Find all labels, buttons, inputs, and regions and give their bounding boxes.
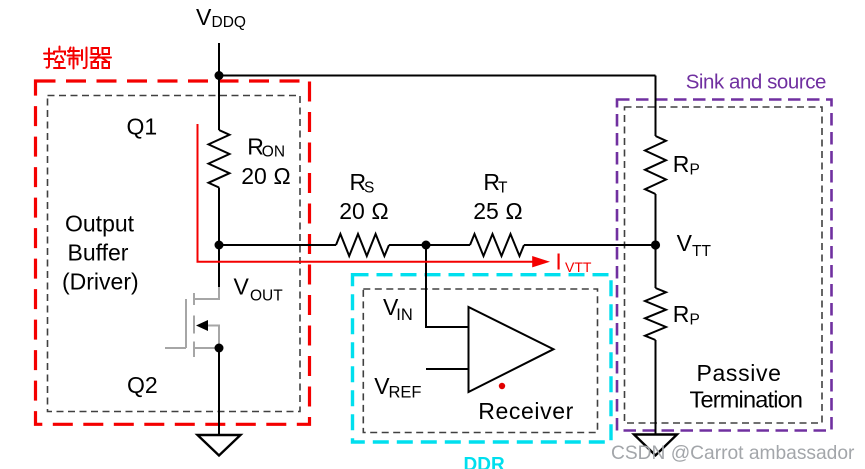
svg-text:REF: REF <box>389 384 422 402</box>
svg-text:V: V <box>234 274 250 300</box>
svg-text:Q1: Q1 <box>127 114 158 140</box>
svg-text:CSDN @Carrot ambassador: CSDN @Carrot ambassador <box>611 443 855 464</box>
svg-text:Q2: Q2 <box>127 372 158 398</box>
svg-text:S: S <box>364 180 374 197</box>
svg-text:I: I <box>555 249 561 275</box>
svg-text:DDQ: DDQ <box>212 14 246 31</box>
svg-text:V: V <box>196 4 212 30</box>
svg-text:Sink and source: Sink and source <box>686 71 826 94</box>
svg-text:20 Ω: 20 Ω <box>339 198 389 224</box>
svg-text:T: T <box>498 180 508 197</box>
svg-text:P: P <box>690 312 700 329</box>
svg-text:(Driver): (Driver) <box>62 269 139 295</box>
svg-text:Output: Output <box>65 211 135 237</box>
svg-text:TT: TT <box>692 243 711 260</box>
svg-text:IN: IN <box>396 306 413 324</box>
svg-text:25 Ω: 25 Ω <box>473 198 523 224</box>
svg-text:Receiver: Receiver <box>478 398 574 424</box>
svg-text:ON: ON <box>262 143 285 160</box>
svg-text:R: R <box>673 301 690 327</box>
svg-text:P: P <box>690 162 700 179</box>
svg-text:V: V <box>677 230 693 256</box>
svg-text:DDR: DDR <box>464 455 505 469</box>
svg-text:OUT: OUT <box>250 287 283 304</box>
svg-text:Buffer: Buffer <box>68 240 129 266</box>
svg-text:Termination: Termination <box>690 387 803 413</box>
svg-text:VTT: VTT <box>565 259 592 275</box>
svg-text:R: R <box>673 151 690 177</box>
svg-text:20 Ω: 20 Ω <box>241 163 291 189</box>
svg-text:Passive: Passive <box>697 360 782 386</box>
